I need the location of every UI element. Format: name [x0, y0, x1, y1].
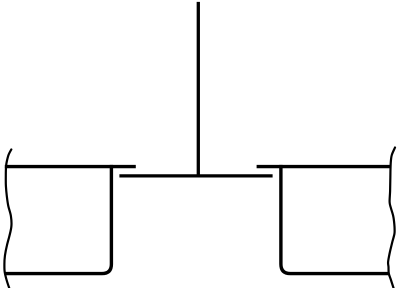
break line: right [388, 148, 395, 288]
wire: right rail top flange [257, 165, 391, 168]
wire: center crossbar [119, 174, 272, 177]
wire: left rail wall and bottom [4, 165, 111, 274]
wire: right rail wall and bottom [281, 165, 389, 274]
wire: left rail top flange [5, 165, 136, 168]
break line: left [4, 150, 11, 288]
wire: center vertical stem [197, 2, 200, 176]
